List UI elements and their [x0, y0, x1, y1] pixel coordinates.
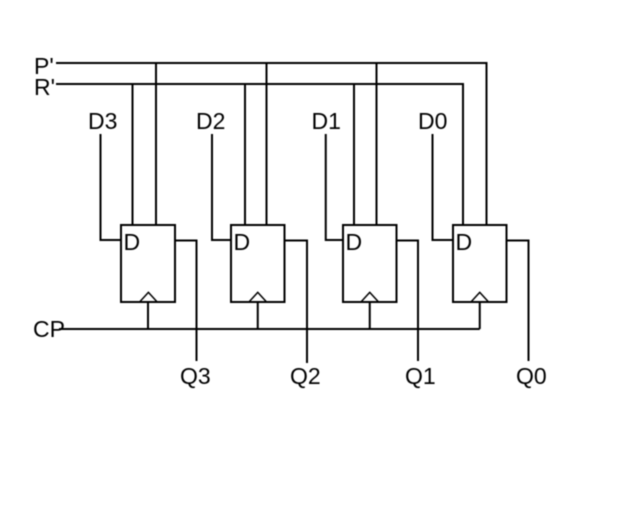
flip-flop U3 body — [343, 225, 397, 302]
wire D0 input to U4 D pin — [433, 134, 454, 240]
svg-text:D: D — [124, 229, 141, 255]
wire U4 clock to CP bus — [479, 302, 481, 329]
clock triangle U3 — [361, 292, 378, 301]
clock triangle U2 — [249, 292, 266, 301]
svg-text:D: D — [234, 229, 251, 255]
wire P' bus horizontal with right-end drop to U4 preset — [56, 63, 487, 225]
wire U1 clock to CP bus — [147, 302, 149, 329]
wire P' drop to U3 — [376, 63, 378, 225]
wire D1 input to U3 D pin — [326, 134, 343, 240]
wire U1 Q output to Q3 — [175, 241, 197, 362]
wire CP bus horizontal — [59, 328, 480, 330]
flip-flop U2 body — [231, 225, 285, 302]
svg-text:Q0: Q0 — [516, 363, 547, 389]
svg-text:D1: D1 — [312, 108, 341, 134]
flip-flop U4 body — [453, 225, 507, 302]
wire R' drop to U3 — [353, 84, 355, 225]
wire U3 Q output to Q1 — [397, 241, 419, 362]
wire U2 clock to CP bus — [257, 302, 259, 329]
clock triangle U1 — [140, 292, 157, 301]
wire R' bus horizontal with right-end drop to U4 reset — [56, 84, 463, 225]
svg-text:CP: CP — [33, 316, 65, 342]
svg-text:Q1: Q1 — [405, 363, 436, 389]
svg-text:Q3: Q3 — [180, 363, 211, 389]
wire P' drop to U1 — [155, 63, 157, 225]
wire R' drop to U1 — [132, 84, 134, 225]
wire U4 Q output to Q0 — [507, 241, 529, 362]
wire R' drop to U2 — [244, 84, 246, 225]
svg-text:D3: D3 — [88, 108, 117, 134]
flip-flop U1 body — [121, 225, 175, 302]
clock triangle U4 — [471, 292, 488, 301]
svg-text:D: D — [456, 229, 473, 255]
wire P' drop to U2 — [266, 63, 268, 225]
svg-text:D2: D2 — [196, 108, 225, 134]
svg-text:D0: D0 — [418, 108, 447, 134]
svg-text:D: D — [346, 229, 363, 255]
wire D3 input to U1 D pin — [101, 134, 122, 240]
svg-text:Q2: Q2 — [290, 363, 321, 389]
wire D2 input to U2 D pin — [212, 134, 231, 240]
wire U3 clock to CP bus — [369, 302, 371, 329]
wire U2 Q output to Q2 — [285, 241, 308, 364]
svg-text:R': R' — [34, 74, 55, 100]
